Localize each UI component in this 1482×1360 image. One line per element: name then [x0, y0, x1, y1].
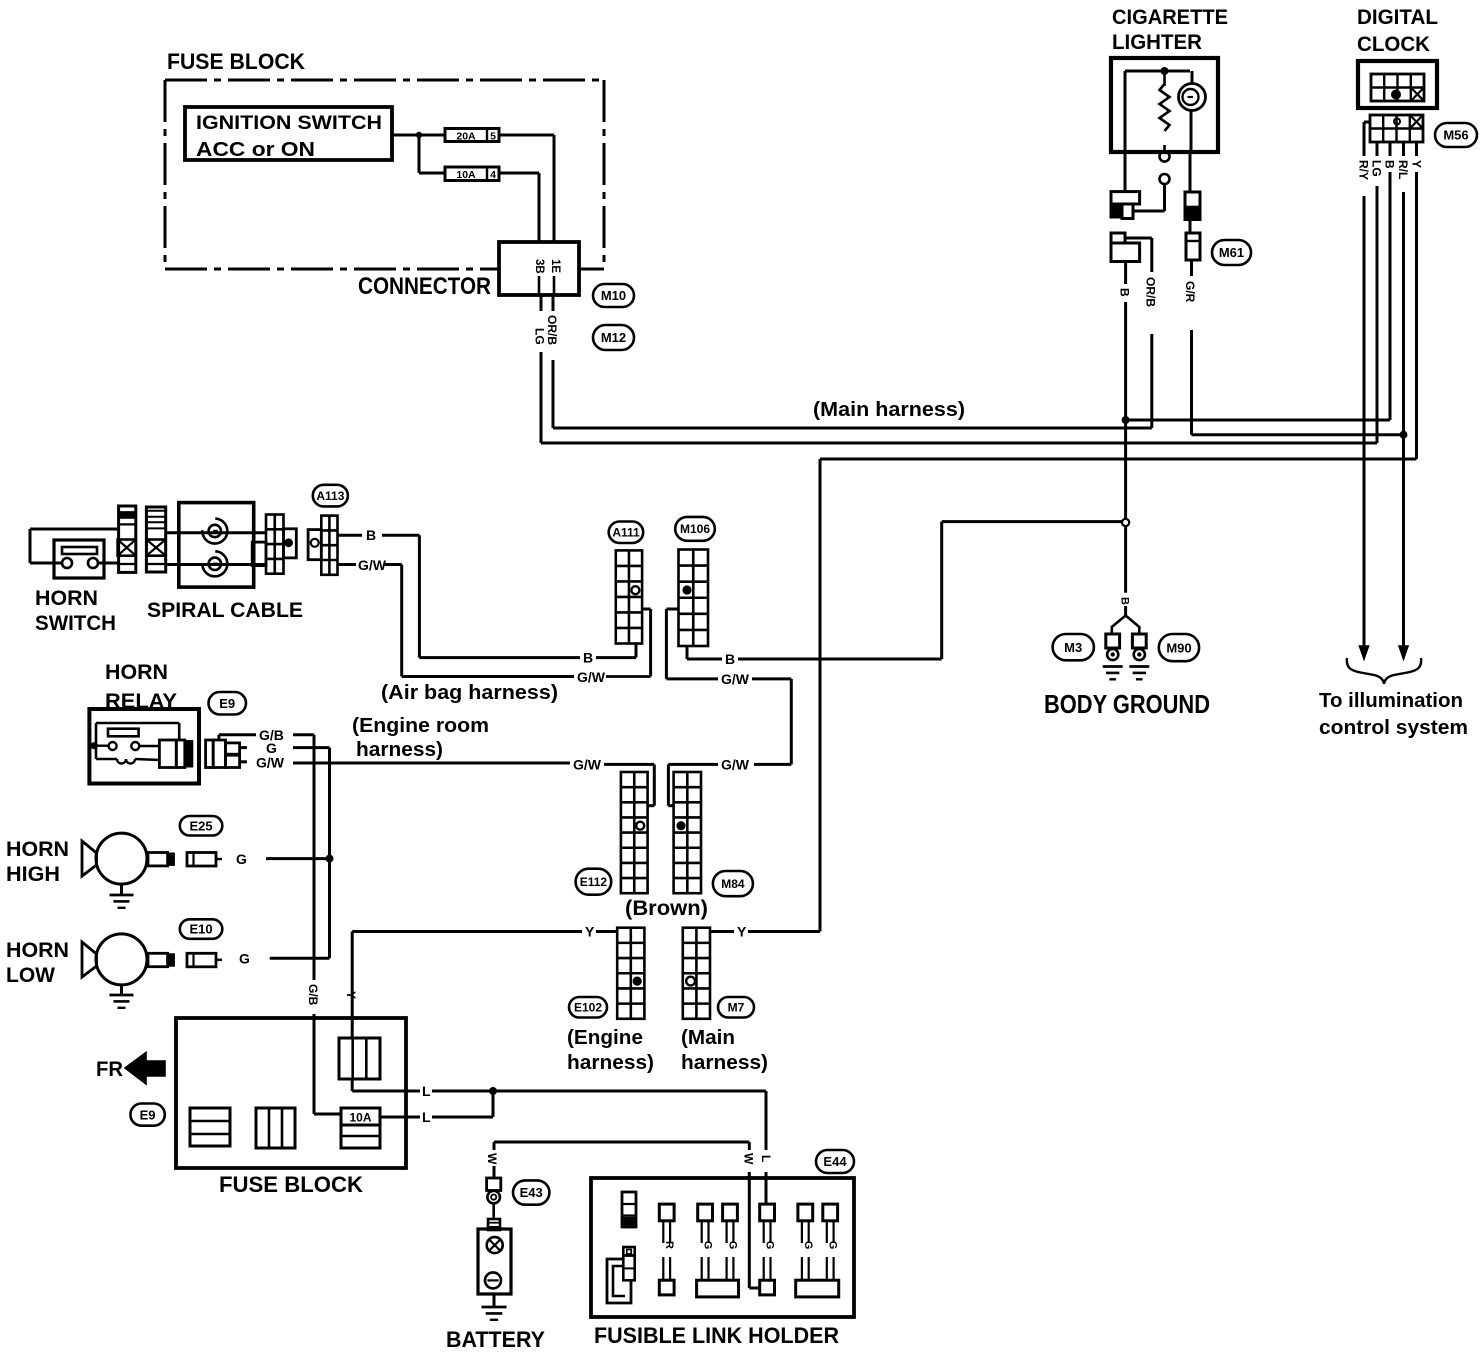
clock inner grid: [1371, 74, 1424, 101]
svg-text:G: G: [764, 1241, 776, 1250]
fusible link G3: [760, 1204, 776, 1295]
body ground terminal M3: [1103, 634, 1123, 679]
junction dot L: [489, 1087, 497, 1095]
engine harness label: [567, 1027, 654, 1074]
oval M56: [1435, 123, 1477, 147]
wire M106 B out: [687, 522, 942, 659]
brown label: [625, 897, 708, 920]
oval M10: [593, 284, 634, 307]
svg-text:Y: Y: [585, 924, 595, 940]
svg-text:M3: M3: [1064, 640, 1082, 655]
svg-text:G/B: G/B: [306, 984, 320, 1006]
junction dot B wires: [1122, 416, 1130, 424]
connector A111 grid: [616, 550, 642, 643]
svg-text:LOW: LOW: [6, 964, 55, 987]
svg-text:G: G: [802, 1241, 814, 1250]
svg-text:E9: E9: [140, 1107, 156, 1122]
svg-text:R/Y: R/Y: [1357, 160, 1371, 180]
svg-text:harness): harness): [356, 739, 443, 761]
fuse group left: [190, 1108, 230, 1146]
svg-text:FUSE BLOCK: FUSE BLOCK: [219, 1172, 363, 1197]
svg-text:ACC or ON: ACC or ON: [196, 139, 315, 161]
label G relay: [266, 740, 277, 756]
label Y vertical: [344, 991, 358, 999]
connector E112 grid: [621, 772, 648, 893]
svg-text:To illumination: To illumination: [1319, 690, 1463, 712]
wire W into fusible link holder: [749, 1142, 759, 1288]
horn high connector: [187, 853, 222, 867]
label L fusible link: [759, 1155, 773, 1162]
svg-text:LG: LG: [533, 328, 547, 345]
wire A113 G/W out: [338, 565, 402, 677]
fusible link G4 G5 bottom bar: [796, 1280, 839, 1297]
horn low symbol: [82, 934, 175, 1008]
junction dot R/L G/R: [1400, 431, 1408, 439]
horn switch wires: [30, 529, 119, 563]
svg-text:L: L: [759, 1155, 773, 1162]
connector label: [358, 273, 491, 300]
spiral cable connector A: [118, 506, 136, 572]
svg-text:(Brown): (Brown): [625, 897, 708, 920]
fuse group middle: [256, 1108, 295, 1148]
fusible link holder label: [594, 1323, 839, 1348]
fuse 20A 5: [445, 129, 499, 143]
body ground terminal M90: [1129, 634, 1149, 679]
horn high label: [6, 838, 69, 886]
label G horn high: [236, 851, 247, 867]
svg-text:CIGARETTE: CIGARETTE: [1112, 6, 1228, 29]
horn low connector: [187, 953, 222, 967]
fuse top 3-cell: [339, 1038, 380, 1079]
connector M84 grid: [674, 772, 701, 893]
svg-text:3B: 3B: [533, 259, 545, 274]
wire relay G: [240, 748, 330, 959]
fuse block title: [167, 49, 305, 74]
svg-text:M10: M10: [601, 288, 626, 303]
wire G/R lighter to clock R/L: [1192, 433, 1404, 436]
battery label: [446, 1327, 545, 1352]
oval M84: [713, 871, 753, 896]
lighter left connector upper: [1110, 192, 1140, 219]
oval E44: [816, 1150, 854, 1173]
lighter lamp: [1179, 71, 1206, 152]
svg-text:E10: E10: [190, 922, 213, 937]
digital clock box: [1358, 61, 1437, 108]
label W fusible link: [742, 1153, 756, 1165]
wire 10A fuse to connector pin 3B: [499, 173, 539, 242]
lighter right connector upper: [1185, 152, 1200, 233]
label B M106: [725, 651, 735, 667]
connector E102 grid: [617, 928, 644, 1019]
oval M61: [1212, 240, 1251, 265]
svg-text:M106: M106: [680, 522, 710, 536]
svg-text:(Engine: (Engine: [567, 1027, 643, 1049]
svg-text:M12: M12: [601, 330, 626, 345]
wire G/W to A111: [402, 609, 651, 677]
wire lighter G/R down: [1190, 260, 1193, 435]
horn high symbol: [82, 833, 175, 908]
svg-text:E43: E43: [520, 1185, 543, 1200]
label Y right: [737, 924, 747, 940]
svg-text:G: G: [239, 951, 250, 967]
horn low label: [6, 939, 69, 987]
main harness label lower: [681, 1027, 768, 1074]
label main harness: [813, 399, 965, 421]
wire clock LG: [1376, 142, 1379, 443]
node lighter B to M106 B open circle: [1122, 519, 1129, 526]
wire M106 B horizontal to node: [942, 520, 1122, 523]
fusible link R: [659, 1204, 675, 1295]
svg-text:R/L: R/L: [1396, 160, 1410, 179]
label W battery: [485, 1153, 499, 1165]
svg-text:L: L: [422, 1109, 431, 1125]
label G/W engine room: [573, 757, 602, 773]
svg-text:1E: 1E: [549, 259, 561, 273]
arrow to illumination 2: [1399, 646, 1408, 659]
oval M3: [1053, 634, 1094, 660]
wire lighter OR/B down: [1150, 238, 1153, 428]
label R/Y: [1357, 160, 1371, 180]
svg-text:5: 5: [490, 130, 496, 142]
label B lighter: [1118, 288, 1132, 297]
wire OR/B main harness run: [553, 427, 1152, 430]
svg-text:G: G: [236, 851, 247, 867]
label Y clock: [1410, 160, 1424, 168]
svg-text:E25: E25: [190, 818, 213, 833]
oval M12: [593, 325, 634, 350]
fuse block dashed border: [165, 80, 604, 269]
svg-text:G/W: G/W: [577, 669, 606, 685]
wire Y left run: [352, 932, 617, 1039]
oval A113: [313, 485, 348, 507]
lighter internal junction dot: [1161, 67, 1169, 75]
wire Y right run: [710, 930, 820, 933]
svg-text:harness): harness): [681, 1052, 768, 1074]
svg-text:G: G: [702, 1241, 714, 1250]
fusible link G1: [698, 1204, 714, 1280]
svg-text:R: R: [663, 1241, 675, 1249]
svg-text:HORN: HORN: [105, 661, 168, 684]
clock connector M56 grid: [1370, 115, 1423, 142]
digital clock title: [1357, 6, 1438, 56]
spiral upper: [202, 519, 227, 544]
wire B to A111: [419, 644, 636, 658]
oval M7: [718, 997, 754, 1018]
svg-text:B: B: [1119, 597, 1131, 605]
wire horn high G: [266, 857, 330, 860]
oval E102: [569, 997, 607, 1018]
svg-text:G/W: G/W: [721, 671, 750, 687]
label G/W airbag: [577, 669, 606, 685]
svg-text:A113: A113: [316, 489, 344, 503]
wire relay G/B: [219, 735, 341, 1114]
fusible link G1 G2 bottom bar: [697, 1280, 739, 1297]
wire clock R/Y: [1364, 122, 1370, 646]
label G/B relay: [259, 727, 284, 743]
battery: [478, 1219, 511, 1320]
svg-text:CLOCK: CLOCK: [1357, 33, 1430, 56]
svg-text:4: 4: [490, 169, 496, 181]
fusible link G5: [823, 1204, 839, 1280]
spiral lower: [202, 551, 227, 576]
svg-text:B: B: [366, 527, 376, 543]
fusible link holder box: [591, 1178, 854, 1317]
wire relay G/W: [240, 762, 655, 806]
svg-text:10A: 10A: [349, 1111, 371, 1125]
horn relay box: [89, 709, 199, 784]
wire connector B to spiral cable: [166, 533, 266, 565]
air bag harness label: [381, 682, 558, 704]
label G/W M84: [721, 757, 750, 773]
wire lighter B down: [1124, 262, 1127, 593]
svg-text:(Main: (Main: [681, 1027, 735, 1049]
svg-text:FUSE BLOCK: FUSE BLOCK: [167, 49, 305, 74]
lighter left connector lower: [1111, 233, 1152, 262]
fusible link small connector: [622, 1192, 636, 1227]
svg-text:20A: 20A: [456, 130, 476, 142]
svg-text:HORN: HORN: [6, 838, 69, 861]
svg-text:harness): harness): [567, 1052, 654, 1074]
wire clock B: [1389, 142, 1392, 420]
svg-text:G: G: [827, 1241, 839, 1250]
svg-text:FR: FR: [96, 1058, 123, 1081]
label Y left: [585, 924, 595, 940]
body ground label: [1044, 689, 1210, 719]
svg-text:E102: E102: [574, 1001, 602, 1015]
svg-text:CONNECTOR: CONNECTOR: [358, 273, 491, 300]
fusible link bent connector: [607, 1247, 635, 1303]
connector M7 grid: [683, 928, 710, 1019]
label OR/B: [545, 315, 559, 345]
wire L lower from 10A: [380, 1091, 493, 1117]
svg-text:G/R: G/R: [1183, 281, 1197, 303]
connector E43: [487, 1178, 501, 1219]
svg-text:G/W: G/W: [721, 757, 750, 773]
cigarette lighter title: [1112, 6, 1228, 54]
label B clock: [1383, 160, 1397, 169]
fusible link G2: [723, 1204, 739, 1280]
wire L upper: [352, 1079, 766, 1091]
svg-text:BODY GROUND: BODY GROUND: [1044, 689, 1210, 719]
lighter switch contacts: [1133, 152, 1170, 212]
oval E112: [576, 869, 612, 895]
oval E9 fuse block: [130, 1104, 164, 1126]
svg-text:control system: control system: [1319, 717, 1468, 739]
svg-text:B: B: [725, 651, 735, 667]
label G/W spiral: [358, 557, 387, 573]
svg-text:(Main harness): (Main harness): [813, 399, 965, 421]
wire clock B to lighter B junction: [1126, 419, 1390, 422]
connector A113: [308, 516, 337, 575]
junction dot fuse feed: [416, 132, 422, 138]
label G/W relay: [256, 755, 285, 771]
svg-text:M90: M90: [1166, 640, 1191, 655]
cigarette lighter box: [1111, 58, 1218, 152]
wire ignition switch to junction: [392, 134, 445, 137]
wire L into fusible link holder: [765, 1091, 768, 1204]
fuse 10A 4: [445, 167, 499, 181]
svg-text:E112: E112: [580, 875, 608, 889]
oval A111: [609, 522, 644, 544]
label G horn low: [239, 951, 250, 967]
svg-text:DIGITAL: DIGITAL: [1357, 6, 1438, 29]
label OR/B lighter: [1144, 277, 1158, 307]
svg-text:E44: E44: [823, 1154, 847, 1169]
svg-text:M56: M56: [1443, 128, 1468, 143]
svg-text:Y: Y: [737, 924, 747, 940]
wire OR/B below connector: [552, 295, 555, 428]
lighter heater resistor: [1125, 71, 1170, 192]
oval E10: [180, 919, 223, 939]
spiral cable box: [179, 503, 254, 587]
lighter right connector lower: [1186, 233, 1200, 260]
svg-text:W: W: [742, 1153, 756, 1165]
connector box M10/M12: [499, 242, 579, 295]
svg-text:M7: M7: [728, 1001, 745, 1015]
horn switch box: [54, 540, 104, 578]
wire body ground split: [1112, 606, 1140, 634]
svg-text:(Air bag harness): (Air bag harness): [381, 682, 558, 704]
svg-text:HORN: HORN: [35, 587, 98, 610]
svg-text:L: L: [422, 1083, 431, 1099]
svg-text:FUSIBLE LINK HOLDER: FUSIBLE LINK HOLDER: [594, 1323, 839, 1348]
spiral cable label: [147, 599, 303, 622]
fuse block lower box: [176, 1018, 406, 1168]
svg-text:SWITCH: SWITCH: [35, 612, 116, 635]
engine room harness label: [352, 715, 489, 761]
svg-text:M84: M84: [721, 877, 745, 891]
svg-text:Y: Y: [344, 991, 358, 999]
wire horn low G: [270, 957, 330, 960]
fuse block lower label: [219, 1172, 363, 1197]
svg-text:BATTERY: BATTERY: [446, 1327, 545, 1352]
svg-text:G/W: G/W: [573, 757, 602, 773]
svg-text:Y: Y: [1410, 160, 1424, 168]
label LG: [533, 328, 547, 345]
wire M106 G/W out: [666, 609, 791, 806]
oval E9 relay: [209, 692, 247, 715]
svg-text:SPIRAL CABLE: SPIRAL CABLE: [147, 599, 303, 622]
svg-text:A111: A111: [612, 526, 640, 540]
label R/L: [1396, 160, 1410, 179]
wire Y run clock to corner: [820, 459, 1417, 932]
connector C right of spiral cable: [252, 515, 296, 574]
svg-text:G/W: G/W: [256, 755, 285, 771]
label L lower: [422, 1109, 431, 1125]
svg-text:B: B: [1383, 160, 1397, 169]
svg-text:G/W: G/W: [358, 557, 387, 573]
label G/B vertical: [306, 984, 320, 1006]
svg-text:LG: LG: [1370, 160, 1384, 177]
svg-text:LIGHTER: LIGHTER: [1112, 31, 1202, 54]
fusible link G4: [798, 1204, 814, 1280]
svg-text:IGNITION SWITCH: IGNITION SWITCH: [196, 112, 382, 134]
wire 20A fuse to connector pin 1E: [499, 135, 554, 242]
svg-text:10A: 10A: [456, 169, 476, 181]
horn switch label: [35, 587, 116, 635]
arrow to illumination 1: [1360, 646, 1369, 659]
label B small above ground: [1119, 597, 1131, 605]
fuse 10A lower: [341, 1108, 380, 1148]
label LG clock: [1370, 160, 1384, 177]
svg-text:E9: E9: [219, 696, 235, 711]
wire clock Y: [1415, 142, 1418, 459]
spiral cable connector B: [146, 507, 165, 572]
label G/R: [1183, 281, 1197, 303]
horn relay connector E9: [206, 740, 240, 768]
wire clock R/L: [1402, 142, 1405, 646]
oval E25: [180, 816, 223, 836]
FR arrow: [96, 1053, 165, 1085]
svg-text:OR/B: OR/B: [1144, 277, 1158, 307]
svg-text:B: B: [1118, 288, 1132, 297]
label L upper: [422, 1083, 431, 1099]
brace to illumination: [1347, 658, 1421, 684]
ignition switch box: [185, 107, 392, 161]
svg-text:(Engine room: (Engine room: [352, 715, 489, 737]
label B spiral: [366, 527, 376, 543]
label B airbag: [583, 650, 593, 666]
label G/W M106 upper: [721, 671, 750, 687]
svg-text:B: B: [583, 650, 593, 666]
svg-text:HORN: HORN: [6, 939, 69, 962]
wire A113 B out: [338, 535, 420, 657]
svg-text:HIGH: HIGH: [6, 863, 60, 886]
wire LG main harness run: [541, 442, 1377, 445]
svg-text:G: G: [727, 1241, 739, 1250]
connector M106 grid: [679, 550, 709, 647]
oval M90: [1159, 634, 1199, 661]
wire junction down to 10A fuse: [419, 135, 445, 173]
svg-text:OR/B: OR/B: [545, 315, 559, 345]
junction dot G: [326, 855, 334, 863]
svg-text:W: W: [485, 1153, 499, 1165]
oval M106: [675, 517, 715, 541]
lighter internal top wire: [1125, 70, 1190, 73]
svg-text:M61: M61: [1219, 245, 1244, 260]
wire W battery run: [494, 1142, 749, 1178]
wire LG below connector: [540, 295, 543, 443]
horn relay title: [105, 661, 177, 713]
oval E43: [513, 1180, 549, 1204]
to illumination control system label: [1319, 690, 1468, 739]
horn relay internals: [91, 723, 194, 768]
